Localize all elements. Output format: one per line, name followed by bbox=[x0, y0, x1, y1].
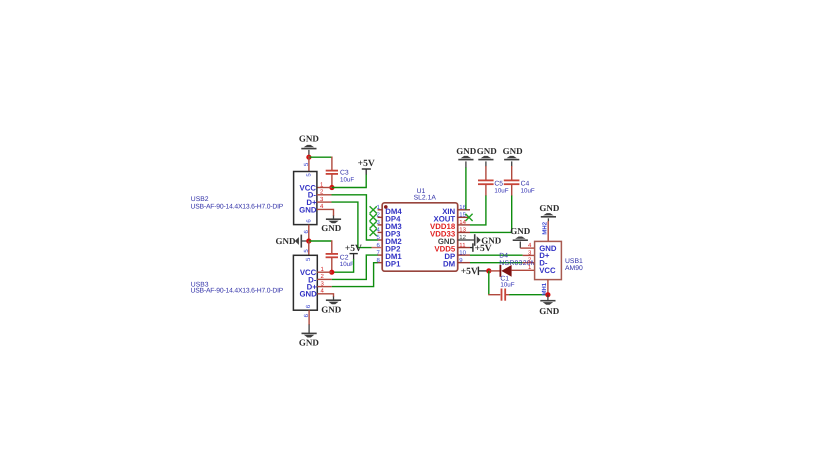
op-amp U1 body (SL2.1A hub IC) bbox=[382, 188, 458, 271]
connector USB1 bbox=[528, 241, 561, 279]
svg-text:USB2: USB2 bbox=[191, 196, 209, 203]
svg-text:11: 11 bbox=[459, 242, 466, 249]
diode D4 bbox=[499, 253, 561, 277]
U1 pin 10 DP bbox=[444, 249, 470, 261]
capacitor C3 bbox=[326, 157, 355, 188]
junction node VCC3 bbox=[329, 270, 334, 275]
U1 pin 5 DM2 bbox=[376, 234, 402, 246]
svg-text:USB-AF-90-14.4X13.6-H7.0-DIP: USB-AF-90-14.4X13.6-H7.0-DIP bbox=[191, 288, 284, 295]
wire C1 to MH1 junction (green) bbox=[509, 294, 548, 296]
U1 pin 11 VDD5 bbox=[434, 242, 470, 254]
connector USB2 bbox=[294, 162, 324, 233]
U1 pin 1 DM4 bbox=[376, 204, 402, 216]
U1 pin 2 DP4 bbox=[376, 212, 401, 224]
svg-text:MH2: MH2 bbox=[542, 221, 549, 234]
U1 pin 6 DP2 bbox=[376, 242, 401, 254]
wire USB3 D+ to U1 DP1 (green) bbox=[317, 263, 378, 287]
svg-text:VCC: VCC bbox=[539, 266, 556, 275]
ground at USB3 bottom bbox=[299, 325, 320, 348]
ground GND left rotated flag bbox=[276, 235, 309, 248]
wire GND junction down to USB2 shield pin (red) bbox=[308, 156, 310, 172]
wire +5V to USB3 VCC (green) bbox=[332, 259, 354, 272]
wire USB2 D+ to U1 DP2 (green) bbox=[317, 202, 378, 247]
capacitor C1 bbox=[488, 276, 515, 301]
junction node shield-GND bbox=[306, 238, 311, 243]
ground GND rotated flag at pin12 bbox=[470, 234, 502, 246]
wire USB3 shield bottom to ground (red) bbox=[308, 310, 310, 325]
svg-text:DM: DM bbox=[443, 260, 455, 269]
ground at MH1 bbox=[539, 295, 560, 316]
svg-text:10uF: 10uF bbox=[340, 261, 354, 268]
wire GND to USB1 pin4 (red) bbox=[520, 247, 534, 249]
svg-text:10uF: 10uF bbox=[494, 187, 508, 194]
ground GND top flag bbox=[299, 133, 320, 156]
svg-text:AM90: AM90 bbox=[565, 265, 583, 272]
no-connect X pin4 bbox=[370, 229, 377, 236]
U1 pin 14 VDD18 bbox=[430, 219, 470, 231]
svg-text:GND: GND bbox=[321, 223, 342, 233]
no-connect X pin2 bbox=[370, 214, 377, 221]
U1 pin 12 GND bbox=[438, 234, 470, 246]
wire USB2 D- to U1 DM2 (green) bbox=[317, 195, 378, 240]
wire diode to USB1 VCC (red) bbox=[512, 269, 535, 271]
capacitor C2 bbox=[326, 240, 355, 272]
wire C5 to VDD18 pin14 (green) bbox=[470, 196, 486, 225]
U1 pin 9 DM bbox=[443, 257, 470, 269]
connector USB3 bbox=[293, 249, 324, 318]
svg-text:GND: GND bbox=[503, 146, 524, 156]
wire +5V junction down to C1 (green) bbox=[488, 271, 490, 295]
svg-text:+5V: +5V bbox=[345, 244, 362, 254]
U1 pin 16 XIN bbox=[442, 204, 470, 216]
svg-text:GND: GND bbox=[456, 146, 477, 156]
ground at USB2 pin4 bbox=[321, 216, 342, 233]
junction node GND-USB2 bbox=[306, 155, 311, 160]
wire USB3 D- to U1 DM1 (green) bbox=[317, 255, 378, 279]
svg-text:GND: GND bbox=[477, 146, 498, 156]
svg-text:GND: GND bbox=[510, 226, 531, 236]
wire C4 to VDD33 pin13 (green) bbox=[470, 196, 512, 233]
svg-text:C3: C3 bbox=[340, 169, 349, 176]
U1 pin 7 DM1 bbox=[376, 249, 402, 261]
power +5V rotated flag at pin11 bbox=[470, 243, 492, 254]
wire U1 DP to USB1 D+ (green) bbox=[470, 254, 535, 256]
wire XIN to GND (green) bbox=[465, 168, 467, 210]
wire USB2 GND pin4 to ground (red) bbox=[317, 209, 334, 216]
junction node VCC2 bbox=[329, 185, 334, 190]
svg-text:13: 13 bbox=[459, 227, 466, 234]
svg-text:14: 14 bbox=[459, 219, 466, 226]
svg-text:USB-AF-90-14.4X13.6-H7.0-DIP: USB-AF-90-14.4X13.6-H7.0-DIP bbox=[191, 203, 284, 210]
no-connect X pin3 bbox=[370, 221, 377, 228]
power +5V flag at diode bbox=[461, 267, 489, 277]
U1 pin 13 VDD33 bbox=[430, 227, 470, 239]
capacitor C4 bbox=[504, 166, 535, 196]
svg-text:10uF: 10uF bbox=[500, 282, 514, 289]
ground GND flag above MH2 bbox=[539, 203, 560, 222]
capacitor C5 bbox=[478, 166, 509, 196]
wire GND junction to C3 top (green) bbox=[309, 156, 332, 158]
wire U1 DM to USB1 D- (green) bbox=[470, 262, 535, 264]
ground at USB3 pin4 bbox=[321, 297, 342, 315]
svg-text:D4: D4 bbox=[499, 253, 508, 260]
wire +5V to VCC2 junction (green) bbox=[332, 175, 366, 188]
svg-text:15: 15 bbox=[459, 212, 466, 219]
svg-text:GND: GND bbox=[299, 205, 317, 214]
svg-text:GND: GND bbox=[539, 203, 560, 213]
wire USB2 VCC pin1 (red) bbox=[317, 187, 332, 189]
svg-text:SL2.1A: SL2.1A bbox=[414, 195, 437, 202]
ground GND flag above C5 bbox=[477, 146, 498, 167]
U1 pin 4 DP3 bbox=[376, 227, 401, 239]
svg-text:GND: GND bbox=[276, 236, 297, 246]
U1 pin 8 DP1 bbox=[376, 257, 401, 269]
svg-text:10uF: 10uF bbox=[340, 177, 354, 184]
svg-text:+5V: +5V bbox=[475, 244, 492, 254]
power +5V flag (USB2) bbox=[358, 159, 375, 175]
ground GND flag above XIN bbox=[456, 146, 477, 168]
svg-text:GND: GND bbox=[321, 305, 342, 315]
ground GND flag above C4 bbox=[503, 146, 524, 167]
svg-text:GND: GND bbox=[299, 290, 317, 299]
wire USB3 shield top (red) bbox=[308, 241, 310, 255]
wire junction to C2 top (green) bbox=[309, 240, 332, 242]
junction node +5V/diode bbox=[486, 268, 491, 273]
wire USB3 GND pin4 to ground (red) bbox=[317, 294, 333, 297]
wire MH1 pin (red) bbox=[541, 280, 548, 296]
svg-text:10uF: 10uF bbox=[521, 187, 535, 194]
no-connect X pin1 bbox=[370, 206, 377, 213]
svg-text:12: 12 bbox=[459, 234, 466, 241]
svg-text:GND: GND bbox=[299, 338, 320, 348]
power +5V flag (USB3) bbox=[345, 244, 362, 260]
U1 pin 15 XOUT bbox=[434, 212, 470, 224]
svg-text:GND: GND bbox=[539, 306, 560, 316]
wire MH2 pin (red) bbox=[542, 221, 549, 241]
ground GND flag above USB1 pin4 bbox=[510, 226, 531, 248]
svg-text:DP1: DP1 bbox=[385, 260, 401, 269]
wire USB3 VCC pin1 (red) bbox=[317, 271, 332, 273]
svg-text:10: 10 bbox=[459, 249, 466, 256]
svg-text:+5V: +5V bbox=[461, 267, 478, 277]
junction node MH1-GND bbox=[545, 292, 550, 297]
wire junction to diode (red) bbox=[489, 270, 500, 272]
no-connect X pin15 bbox=[465, 214, 472, 221]
svg-text:+5V: +5V bbox=[358, 159, 375, 169]
U1 pin 3 DM3 bbox=[376, 219, 402, 231]
svg-text:GND: GND bbox=[299, 133, 320, 143]
wire USB2 shield bottom to junction (red) bbox=[308, 225, 310, 241]
